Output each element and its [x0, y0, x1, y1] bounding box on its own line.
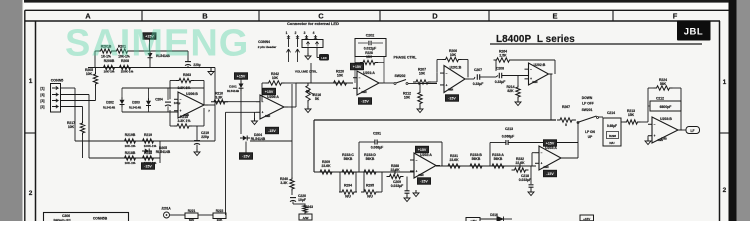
svg-text:23.6K: 23.6K: [449, 158, 459, 162]
svg-text:6800pF: 6800pF: [660, 105, 672, 109]
svg-text:620: 620: [189, 218, 195, 221]
svg-text:NaN: NaN: [362, 91, 367, 94]
svg-text:56KB: 56KB: [472, 157, 481, 161]
svg-text:2 pin Header: 2 pin Header: [258, 45, 277, 49]
svg-text:0.68µF: 0.68µF: [607, 124, 617, 128]
svg-text:0.033µF: 0.033µF: [391, 184, 404, 188]
svg-text:U201:A: U201:A: [363, 71, 375, 75]
svg-text:[2]: [2]: [40, 105, 44, 109]
svg-text:L8400P L series: L8400P L series: [496, 34, 575, 45]
svg-text:[4]: [4]: [40, 93, 44, 97]
svg-text:100K-1%: 100K-1%: [121, 70, 134, 74]
svg-text:NaN: NaN: [448, 89, 453, 92]
svg-text:U202:A: U202:A: [420, 153, 432, 157]
svg-text:N/U: N/U: [609, 141, 614, 145]
svg-text:−: −: [530, 68, 532, 72]
svg-text:-15V: -15V: [546, 172, 554, 176]
svg-text:R219B: R219B: [125, 133, 136, 137]
svg-text:R294: R294: [344, 184, 352, 188]
svg-text:56KB: 56KB: [366, 157, 375, 161]
svg-text:10K: 10K: [337, 74, 344, 78]
svg-text:R263: R263: [183, 73, 191, 77]
svg-text:D202: D202: [106, 101, 114, 105]
svg-text:10K: 10K: [68, 125, 75, 129]
svg-text:J201A: J201A: [161, 207, 171, 211]
svg-text:U201:B: U201:B: [450, 66, 462, 70]
svg-text:NaN: NaN: [265, 115, 270, 118]
svg-text:C214: C214: [607, 111, 615, 115]
svg-text:10K: 10K: [419, 72, 426, 76]
svg-text:100µ: 100µ: [174, 101, 181, 105]
svg-text:15K: 15K: [628, 113, 635, 117]
svg-text:1: 1: [286, 31, 288, 35]
svg-text:D201: D201: [229, 85, 237, 89]
svg-text:10K-1%: 10K-1%: [104, 70, 115, 74]
svg-text:56KB: 56KB: [494, 157, 503, 161]
svg-text:R221: R221: [188, 209, 196, 213]
svg-text:U202:B: U202:B: [534, 63, 546, 67]
svg-text:0.033µF: 0.033µF: [519, 178, 532, 182]
svg-text:3: 3: [304, 31, 306, 35]
svg-text:B4Gain ctrl: B4Gain ctrl: [53, 219, 70, 222]
svg-text:+: +: [416, 169, 418, 173]
svg-text:A/W: A/W: [303, 216, 309, 220]
svg-text:LF: LF: [691, 129, 695, 133]
svg-text:RL5414B: RL5414B: [227, 89, 239, 93]
svg-text:[1]: [1]: [40, 87, 44, 91]
svg-text:+: +: [359, 87, 361, 91]
svg-text:10K-1%: 10K-1%: [125, 144, 136, 148]
svg-text:+: +: [262, 111, 264, 115]
svg-text:1: 1: [29, 78, 33, 85]
svg-text:−: −: [446, 71, 448, 75]
svg-text:F: F: [673, 12, 678, 21]
svg-text:C291: C291: [373, 132, 381, 136]
svg-text:NaN: NaN: [419, 174, 424, 177]
svg-text:0.33µF: 0.33µF: [473, 82, 484, 86]
svg-text:−: −: [359, 76, 361, 80]
svg-text:E: E: [552, 12, 557, 21]
svg-text:C213: C213: [505, 127, 513, 131]
svg-text:R219: R219: [144, 133, 152, 137]
svg-text:-15V: -15V: [144, 165, 152, 169]
svg-text:LP OFF: LP OFF: [582, 102, 594, 106]
svg-text:+15V: +15V: [265, 90, 274, 94]
svg-text:3.3K: 3.3K: [215, 96, 223, 100]
svg-text:+15V: +15V: [237, 75, 246, 79]
svg-text:+: +: [180, 109, 182, 113]
svg-text:0: 0: [565, 123, 567, 127]
svg-text:R218B: R218B: [125, 151, 136, 155]
svg-text:N/U: N/U: [345, 195, 351, 199]
svg-text:RL5414B: RL5414B: [103, 105, 115, 109]
svg-text:+15V: +15V: [583, 217, 590, 221]
svg-text:U206:A: U206:A: [267, 95, 279, 99]
svg-text:VOLUME CTRL: VOLUME CTRL: [295, 70, 317, 74]
svg-text:−: −: [541, 151, 543, 155]
svg-text:D: D: [432, 12, 438, 21]
svg-text:R295: R295: [366, 184, 374, 188]
svg-text:2.5K: 2.5K: [499, 54, 507, 58]
svg-text:C212: C212: [656, 97, 664, 101]
svg-text:2: 2: [29, 190, 33, 197]
svg-text:U206:B: U206:B: [186, 92, 198, 96]
svg-text:-15V: -15V: [420, 180, 428, 184]
svg-text:10K: 10K: [217, 218, 224, 221]
svg-text:10K-1%: 10K-1%: [125, 161, 136, 165]
svg-text:+15V: +15V: [469, 219, 476, 221]
svg-text:C: C: [318, 12, 324, 21]
svg-text:2: 2: [295, 31, 297, 35]
svg-text:B: B: [202, 12, 208, 21]
svg-text:0.33µF: 0.33µF: [495, 80, 506, 84]
svg-text:[3]: [3]: [40, 99, 44, 103]
svg-text:-15V: -15V: [242, 155, 250, 159]
svg-text:SW201: SW201: [582, 108, 593, 112]
svg-text:SW202: SW202: [394, 74, 405, 78]
svg-text:D203: D203: [132, 101, 140, 105]
svg-text:C306: C306: [62, 214, 70, 218]
svg-text:1: 1: [723, 79, 727, 86]
svg-text:U203:A: U203:A: [545, 146, 557, 150]
svg-text:5K: 5K: [315, 97, 320, 101]
svg-text:−: −: [416, 158, 418, 162]
svg-text:2: 2: [723, 187, 727, 194]
svg-text:LP ON: LP ON: [585, 130, 595, 134]
svg-text:U203:B: U203:B: [660, 117, 672, 121]
svg-text:R296: R296: [609, 134, 617, 138]
svg-text:RL5414B: RL5414B: [156, 150, 171, 154]
svg-text:0.068µF: 0.068µF: [502, 135, 515, 139]
svg-text:SAIMENG: SAIMENG: [65, 23, 249, 65]
svg-text:-15V: -15V: [448, 97, 456, 101]
svg-text:+15V: +15V: [546, 142, 555, 146]
svg-text:220µ: 220µ: [201, 135, 209, 139]
svg-text:10K: 10K: [86, 72, 93, 76]
svg-text:-15V: -15V: [268, 129, 276, 133]
svg-text:LED: LED: [321, 56, 326, 60]
svg-text:4: 4: [313, 31, 315, 35]
svg-text:10K: 10K: [366, 55, 373, 59]
svg-text:C208: C208: [496, 67, 504, 71]
svg-text:Connector for external LED: Connector for external LED: [287, 21, 339, 26]
svg-text:82K: 82K: [507, 89, 514, 93]
svg-text:CONN5B: CONN5B: [93, 217, 108, 221]
svg-text:R222: R222: [216, 209, 224, 213]
svg-text:N/U: N/U: [367, 195, 373, 199]
svg-text:C204: C204: [155, 98, 163, 102]
svg-text:A: A: [85, 12, 91, 21]
svg-text:56KB: 56KB: [344, 157, 353, 161]
svg-text:10µF: 10µF: [298, 198, 306, 202]
svg-text:0.068µF: 0.068µF: [371, 146, 384, 150]
svg-text:CONN4: CONN4: [258, 40, 270, 44]
svg-text:C202: C202: [366, 33, 375, 37]
svg-text:+: +: [446, 83, 448, 87]
svg-text:23.6K: 23.6K: [321, 164, 331, 168]
svg-text:+15V: +15V: [353, 65, 362, 69]
svg-text:10K: 10K: [404, 96, 411, 100]
svg-text:C207: C207: [474, 68, 482, 72]
svg-text:3.3K: 3.3K: [280, 181, 288, 185]
svg-text:+15V: +15V: [418, 148, 427, 152]
svg-text:CONN5: CONN5: [51, 79, 64, 83]
svg-text:+: +: [654, 134, 656, 138]
svg-text:−: −: [654, 123, 656, 127]
svg-text:RL5414B: RL5414B: [129, 105, 141, 109]
svg-text:JBL: JBL: [684, 27, 703, 38]
svg-text:56K: 56K: [660, 82, 667, 86]
svg-text:3.3K 1%: 3.3K 1%: [177, 119, 190, 123]
svg-text:DOWN: DOWN: [582, 96, 593, 100]
svg-text:7dB: 7dB: [661, 137, 668, 141]
svg-text:+: +: [541, 162, 543, 166]
svg-text:R267: R267: [562, 105, 570, 109]
svg-text:NaN: NaN: [532, 81, 537, 84]
svg-text:100K-1%: 100K-1%: [144, 144, 157, 148]
svg-text:10K: 10K: [272, 76, 279, 80]
svg-text:-15V: -15V: [361, 100, 369, 104]
svg-text:NaN: NaN: [544, 166, 549, 169]
svg-text:PHASE CTRL: PHASE CTRL: [394, 56, 418, 60]
